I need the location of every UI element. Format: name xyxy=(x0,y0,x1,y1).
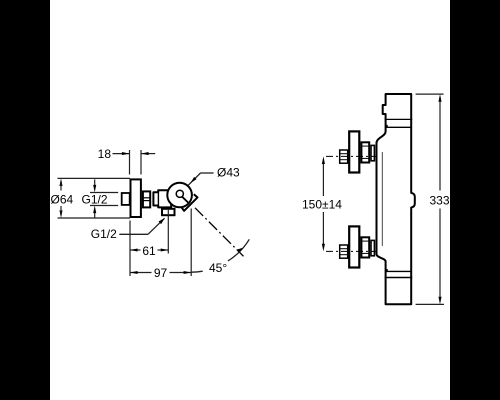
upper nut facet lines xyxy=(361,145,369,147)
wall stub xyxy=(122,193,130,205)
arrowheads 97 xyxy=(130,271,138,274)
left transparent band (renders black) xyxy=(0,0,50,400)
arc arrowhead xyxy=(236,248,243,253)
leader O43 xyxy=(188,173,213,185)
upper valve: nut xyxy=(361,142,369,162)
dim 150+-14 xyxy=(322,162,324,246)
arrowheads 150+-14 xyxy=(322,156,325,164)
upper valve: centerline xyxy=(326,155,376,157)
lower valve: stub xyxy=(340,245,348,258)
bottom port xyxy=(162,209,175,215)
dash-dot outlet centerline xyxy=(195,208,244,256)
svg-text:G1/2: G1/2 xyxy=(91,227,117,241)
body internal line y127 xyxy=(387,125,411,127)
wall plate xyxy=(131,179,141,217)
leader G1/2 lower xyxy=(119,218,164,234)
upper valve: band xyxy=(371,145,374,160)
ext lines G1/2 stub top/bottom xyxy=(90,193,118,206)
svg-text:61: 61 xyxy=(142,244,156,258)
lower valve: band xyxy=(371,240,374,255)
body thin vertical groove xyxy=(381,152,383,246)
body internal line y119 xyxy=(385,118,413,120)
lower nut facet lines xyxy=(361,240,369,242)
arrowhead port leader xyxy=(159,218,165,224)
svg-text:Ø64: Ø64 xyxy=(51,193,74,207)
svg-text:333: 333 xyxy=(430,193,450,207)
dim line 18 xyxy=(113,150,156,175)
outlet 45deg xyxy=(181,194,197,211)
lower stub thread lines xyxy=(340,248,348,250)
arrowheads 18 xyxy=(122,152,130,155)
dim 97 xyxy=(130,209,191,277)
upper valve: flange xyxy=(349,131,359,172)
lower valve: flange xyxy=(349,226,359,267)
body outline xyxy=(377,94,415,304)
45deg arc xyxy=(191,239,249,272)
upper valve: stub xyxy=(340,150,348,163)
arrowheads 61 xyxy=(130,248,138,251)
lower valve: centerline xyxy=(326,250,376,252)
body internal line y271 xyxy=(387,269,411,271)
svg-text:150±14: 150±14 xyxy=(302,197,342,211)
big circle (thermostat knob) xyxy=(167,183,192,208)
arrowhead O43 xyxy=(191,177,197,183)
arrowheads 333 xyxy=(438,94,441,102)
upper stub thread lines xyxy=(340,153,348,155)
svg-text:18: 18 xyxy=(98,147,112,161)
right transparent band (renders black) xyxy=(450,0,500,400)
dim 61 xyxy=(130,209,168,276)
svg-text:G1/2: G1/2 xyxy=(82,193,108,207)
dim 333 ext lines xyxy=(416,94,444,304)
svg-text:Ø43: Ø43 xyxy=(217,165,240,179)
connector nut xyxy=(143,191,150,207)
dim arrows G1/2 upper xyxy=(93,179,96,218)
svg-text:45°: 45° xyxy=(209,261,227,275)
small circle xyxy=(176,190,183,197)
svg-text:97: 97 xyxy=(154,266,168,280)
body internal line y277 xyxy=(385,277,413,279)
ext lines O64 plate top/bottom xyxy=(58,178,131,218)
body block inner line xyxy=(157,191,159,208)
valve body block xyxy=(153,190,171,207)
nut facet lines xyxy=(143,197,150,199)
lower valve: nut xyxy=(361,237,369,257)
dim arrows O64 xyxy=(59,178,62,218)
lever xyxy=(181,196,188,203)
